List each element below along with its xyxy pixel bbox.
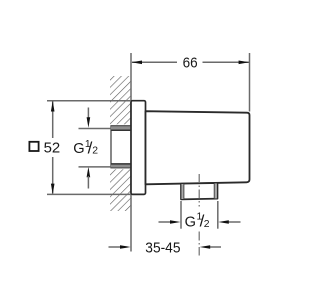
label G 1/2 (left inlet) (73, 138, 98, 157)
leader arrows for left G1/2 (79, 108, 112, 189)
dimension 35-45 (bottom) (109, 240, 222, 256)
square symbol (29, 142, 38, 151)
svg-text:2: 2 (92, 146, 98, 157)
dimension G1/2 (bottom outlet) (159, 201, 241, 231)
svg-text:G: G (73, 141, 84, 157)
wall hatch upper (above inlet pipe) (110, 76, 131, 124)
svg-text:52: 52 (44, 140, 61, 156)
wall hatch lower (below inlet pipe) (110, 169, 131, 211)
flange (wall plate) (131, 101, 146, 195)
wall surface line / extension line x=131 (130, 53, 132, 252)
dimension 52 (left, square symbol) (29, 101, 131, 195)
svg-text:2: 2 (204, 219, 210, 230)
body (cube elbow) (146, 111, 250, 184)
center line of outlet (198, 174, 200, 256)
dimension 66 (top) (131, 53, 249, 112)
svg-text:35-45: 35-45 (145, 240, 180, 256)
inlet pipe G1/2 (in wall) (111, 126, 131, 168)
svg-text:66: 66 (183, 56, 198, 72)
outlet nipple G1/2 (181, 183, 218, 199)
svg-text:G: G (185, 214, 196, 230)
